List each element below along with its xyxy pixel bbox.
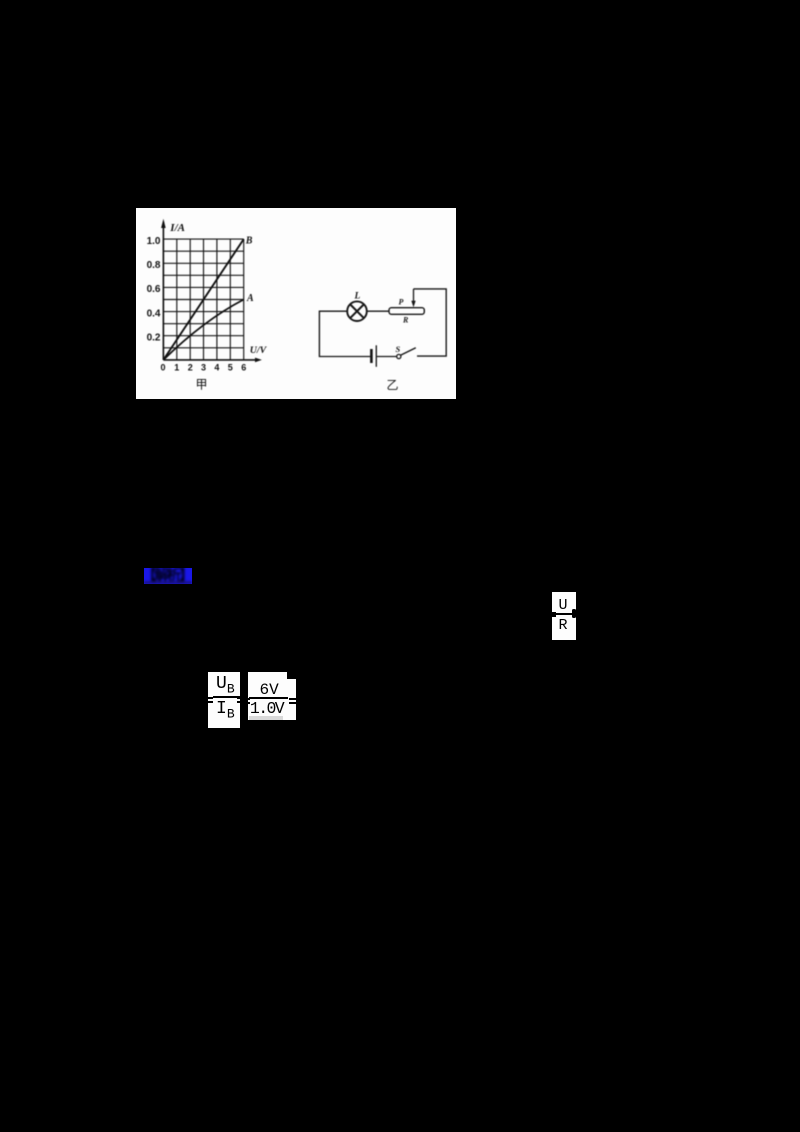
svg-text:I/A: I/A (169, 221, 185, 233)
svg-text:1: 1 (174, 362, 179, 372)
battery (371, 345, 376, 367)
svg-text:5: 5 (228, 362, 233, 372)
svg-text:L: L (354, 291, 361, 301)
grid (163, 239, 243, 360)
svg-text:甲: 甲 (195, 377, 207, 391)
svg-text:R: R (402, 315, 409, 324)
formula =U/R, (552, 592, 576, 640)
svg-text:0.8: 0.8 (147, 260, 161, 271)
svg-text:0: 0 (160, 362, 165, 372)
svg-text:乙: 乙 (387, 377, 399, 391)
lamp L (347, 301, 367, 321)
wire battery to switch (377, 355, 397, 357)
curve B (163, 239, 243, 360)
wire switch to right loop (414, 288, 447, 355)
svg-text:S: S (396, 344, 401, 354)
wire lamp-left loop (319, 311, 370, 356)
svg-text:6: 6 (241, 362, 246, 372)
svg-text:P: P (399, 297, 404, 306)
svg-text:A: A (246, 292, 254, 303)
svg-text:3: 3 (201, 362, 206, 372)
svg-text:0.6: 0.6 (147, 284, 161, 295)
wire lamp to rheostat (367, 310, 389, 312)
x tick labels (160, 362, 246, 372)
figure image (graph 甲 + circuit 乙) (136, 208, 456, 400)
circuit wires (319, 288, 446, 356)
x-axis arrowhead (255, 357, 262, 362)
curve A (163, 299, 243, 359)
svg-text:1.0: 1.0 (147, 235, 161, 246)
blue highlighted tag 【解析】 (144, 568, 192, 585)
svg-text:U/V: U/V (250, 345, 268, 356)
y tick labels (147, 235, 161, 343)
y-axis arrowhead (161, 218, 166, 227)
svg-text:2: 2 (188, 362, 193, 372)
svg-text:B: B (245, 235, 253, 246)
formula U_B / I_B (208, 672, 240, 728)
svg-text:0.2: 0.2 (147, 332, 161, 343)
svg-text:4: 4 (214, 362, 219, 372)
slider P (wiper arrow) (399, 288, 416, 306)
formula 6V / 1.0V (248, 672, 296, 721)
svg-text:0.4: 0.4 (147, 308, 161, 319)
y axis (163, 222, 258, 360)
switch S (396, 344, 416, 358)
rheostat R (389, 307, 424, 324)
